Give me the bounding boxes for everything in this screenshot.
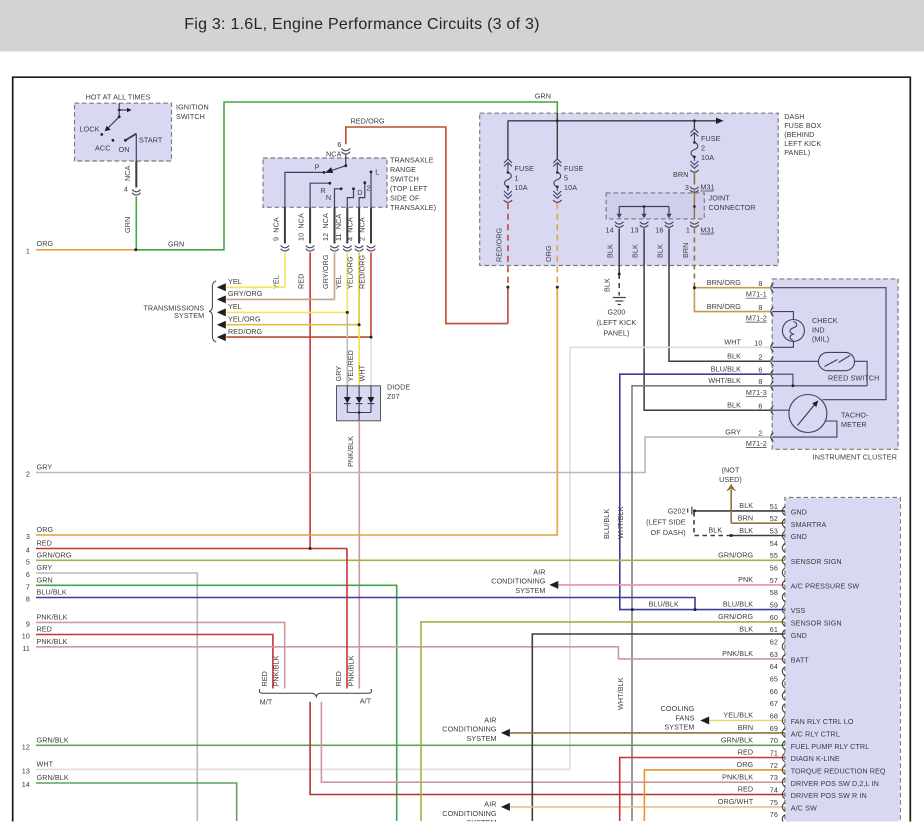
svg-text:AIR: AIR [484, 800, 496, 809]
wire RED/ORG dashed below fuse 1 [507, 203, 509, 287]
svg-text:GRN: GRN [37, 575, 53, 584]
svg-text:YEL/ORG: YEL/ORG [228, 315, 261, 324]
svg-text:WHT: WHT [358, 364, 367, 381]
diode Z07 box [337, 386, 381, 421]
junction RED-ORG/WHT [370, 336, 373, 339]
svg-text:8: 8 [758, 377, 762, 386]
arrow A/C system 1 [549, 581, 558, 589]
svg-text:PNK/BLK: PNK/BLK [346, 436, 355, 467]
svg-text:FUSE: FUSE [701, 134, 721, 143]
svg-text:BLK: BLK [656, 244, 665, 258]
junction cluster [792, 384, 795, 387]
bus drops to fuses [507, 121, 509, 159]
svg-text:(LEFT KICK: (LEFT KICK [597, 318, 637, 327]
svg-text:BRN: BRN [738, 723, 753, 732]
svg-text:M31: M31 [700, 226, 714, 235]
svg-text:ORG: ORG [37, 525, 54, 534]
svg-text:60: 60 [770, 613, 778, 622]
svg-text:D: D [357, 188, 362, 197]
svg-text:10 NCA: 10 NCA [297, 213, 306, 241]
ECM connector box [785, 498, 901, 834]
svg-text:SYSTEM: SYSTEM [466, 734, 496, 743]
connector pin 6 [342, 149, 351, 151]
svg-text:DRIVER POS SW R IN: DRIVER POS SW R IN [791, 791, 867, 800]
svg-text:TRANSAXLE): TRANSAXLE) [390, 203, 436, 212]
svg-text:10A: 10A [515, 183, 528, 192]
wire RED from pin [309, 253, 311, 549]
svg-text:GRN/ORG: GRN/ORG [718, 550, 753, 559]
svg-text:FUSE: FUSE [564, 164, 584, 173]
svg-text:11 NCA: 11 NCA [334, 214, 343, 241]
svg-text:6: 6 [758, 401, 762, 410]
junction YEL-ORG/YEL-RED [358, 323, 361, 326]
svg-text:BRN/ORG: BRN/ORG [707, 278, 742, 287]
ground G200 [613, 298, 626, 305]
svg-text:TACHO-: TACHO- [841, 411, 869, 420]
svg-text:BRN: BRN [681, 243, 690, 258]
fuse 5 symbol [553, 159, 562, 202]
svg-text:FUEL PUMP RLY CTRL: FUEL PUMP RLY CTRL [791, 742, 870, 751]
svg-text:CONDITIONING: CONDITIONING [442, 809, 497, 818]
svg-text:BRN: BRN [673, 170, 688, 179]
switch pin 9 wire NCA [284, 207, 286, 243]
svg-text:6: 6 [758, 365, 762, 374]
svg-text:9 NCA: 9 NCA [271, 217, 280, 241]
svg-text:PNK/BLK: PNK/BLK [37, 612, 68, 621]
transaxle switch internals [285, 154, 371, 208]
svg-text:64: 64 [770, 662, 778, 671]
wire GRN ignition to junction [135, 197, 137, 250]
connector pin 10 [306, 246, 315, 248]
svg-text:BRN/ORG: BRN/ORG [707, 302, 742, 311]
svg-text:GRY: GRY [37, 463, 53, 472]
svg-text:CHECK: CHECK [812, 316, 838, 325]
splice ORG [556, 286, 559, 289]
arrow A/C system 2 [501, 729, 510, 737]
svg-text:CONDITIONING: CONDITIONING [442, 725, 497, 734]
svg-text:GRN/BLK: GRN/BLK [37, 735, 69, 744]
instrument cluster box [772, 279, 898, 449]
svg-text:ORG: ORG [544, 245, 553, 262]
svg-text:(TOP LEFT: (TOP LEFT [390, 184, 428, 193]
svg-text:9: 9 [26, 619, 30, 628]
svg-text:54: 54 [770, 539, 778, 548]
svg-text:FAN RLY CTRL LO: FAN RLY CTRL LO [791, 717, 854, 726]
fuse 1 symbol [504, 159, 513, 202]
svg-text:WHT/BLK: WHT/BLK [616, 677, 625, 710]
svg-text:2: 2 [758, 428, 762, 437]
svg-text:51: 51 [770, 502, 778, 511]
svg-text:FANS: FANS [675, 713, 694, 722]
wire GRN inside fuse box to bus [556, 113, 558, 121]
svg-text:WHT: WHT [724, 338, 741, 347]
svg-text:JOINT: JOINT [709, 194, 731, 203]
wire ORG to pin 72 [644, 770, 785, 821]
svg-text:DIODE: DIODE [387, 383, 410, 392]
tachometer symbol [789, 395, 827, 433]
svg-text:3: 3 [685, 183, 689, 192]
arrow to transmissions system GRY/ORG [217, 295, 226, 303]
svg-text:RED: RED [260, 671, 269, 686]
wire BRN to pin 52 [731, 522, 785, 524]
svg-text:5: 5 [564, 174, 568, 183]
svg-text:GRY/ORG: GRY/ORG [321, 254, 330, 289]
wire BRN below fuse 2 [693, 171, 695, 184]
svg-text:NCA: NCA [123, 165, 132, 181]
svg-text:WHT: WHT [37, 759, 54, 768]
wire BRN through joint connector [693, 190, 695, 219]
junction GRN/ORG [134, 248, 137, 251]
svg-text:DIAGN K-LINE: DIAGN K-LINE [791, 754, 840, 763]
svg-text:BLK: BLK [739, 526, 753, 535]
svg-text:G202: G202 [668, 506, 686, 515]
svg-text:N: N [326, 193, 331, 202]
svg-text:3: 3 [26, 532, 30, 541]
splice RED/ORG [506, 286, 509, 289]
svg-text:4 NCA: 4 NCA [346, 217, 355, 241]
wire RED/ORG to pin 6 [346, 127, 508, 324]
wiper pivot [344, 164, 347, 167]
svg-text:RED: RED [37, 625, 52, 634]
svg-text:1: 1 [686, 226, 690, 235]
svg-text:55: 55 [770, 551, 778, 560]
svg-text:NCA: NCA [326, 150, 342, 159]
svg-text:ORG: ORG [37, 239, 54, 248]
contact R [328, 182, 331, 185]
svg-text:(LEFT SIDE: (LEFT SIDE [646, 518, 686, 527]
splice BLK [730, 534, 733, 537]
svg-text:M/T: M/T [260, 697, 273, 706]
svg-text:SWITCH: SWITCH [176, 112, 205, 121]
svg-text:GRY: GRY [37, 563, 53, 572]
wire RED/ORG from pin [370, 253, 372, 338]
svg-text:10A: 10A [564, 183, 577, 192]
svg-text:REED SWITCH: REED SWITCH [828, 374, 879, 383]
svg-text:GND: GND [791, 631, 807, 640]
svg-text:RANGE: RANGE [390, 165, 416, 174]
wire GRY/ORG from pin [334, 253, 336, 300]
wire PNK/BLK diode output to A/T [358, 421, 360, 689]
svg-text:RED: RED [297, 274, 306, 289]
svg-text:A/C RLY CTRL: A/C RLY CTRL [791, 729, 840, 738]
wire YEL/RED to diode [358, 325, 360, 386]
svg-text:BLK: BLK [631, 244, 640, 258]
svg-text:FUSE: FUSE [515, 164, 535, 173]
wire ORG dashed below fuse 5 [556, 203, 558, 287]
svg-text:A/T: A/T [360, 697, 372, 706]
bus arrow [716, 118, 724, 124]
svg-text:CONDITIONING: CONDITIONING [491, 577, 546, 586]
connector pin 12 [330, 246, 339, 248]
svg-text:FUSE BOX: FUSE BOX [784, 121, 821, 130]
reed switch symbol [819, 352, 855, 370]
svg-text:74: 74 [770, 786, 778, 795]
svg-text:7: 7 [26, 582, 30, 591]
svg-text:SENSOR SIGN: SENSOR SIGN [791, 557, 842, 566]
svg-text:SYSTEM: SYSTEM [664, 723, 694, 732]
svg-text:67: 67 [770, 699, 778, 708]
svg-text:PNK/BLK: PNK/BLK [722, 649, 753, 658]
svg-text:14: 14 [605, 226, 613, 235]
svg-text:Fig 3: 1.6L, Engine Performanc: Fig 3: 1.6L, Engine Performance Circuits… [184, 16, 540, 33]
svg-text:LOCK: LOCK [80, 125, 100, 134]
svg-text:YEL/ORG: YEL/ORG [346, 256, 355, 289]
joint connector drop [618, 207, 620, 215]
svg-text:A/C SW: A/C SW [791, 803, 817, 812]
wire RED below brace to pin 74 [310, 702, 785, 795]
svg-text:IGNITION: IGNITION [176, 103, 209, 112]
svg-text:TORQUE REDUCTION REQ: TORQUE REDUCTION REQ [791, 766, 886, 775]
svg-text:BLU/BLK: BLU/BLK [602, 509, 611, 539]
svg-text:BLU/BLK: BLU/BLK [723, 600, 753, 609]
svg-text:GRN: GRN [535, 92, 551, 101]
svg-text:63: 63 [770, 650, 778, 659]
switch pin 2 wire NCA [370, 207, 372, 243]
svg-text:OF DASH): OF DASH) [651, 528, 686, 537]
svg-text:BLK: BLK [727, 352, 741, 361]
svg-text:52: 52 [770, 514, 778, 523]
joint connector drop [643, 207, 645, 215]
svg-text:BLK: BLK [603, 278, 612, 292]
svg-text:L: L [375, 168, 379, 177]
svg-text:GRY/ORG: GRY/ORG [228, 289, 263, 298]
connector pin 11 [343, 246, 352, 248]
svg-text:AIR: AIR [484, 715, 496, 724]
fuse 2 symbol [690, 129, 699, 172]
connector M31 pin 1 [690, 222, 699, 224]
svg-text:TRANSAXLE: TRANSAXLE [390, 156, 434, 165]
svg-text:GRN: GRN [168, 240, 184, 249]
svg-text:M71-1: M71-1 [746, 290, 767, 299]
arrow cooling fans [700, 717, 709, 725]
svg-text:LEFT KICK: LEFT KICK [784, 139, 821, 148]
svg-text:RED/ORG: RED/ORG [228, 327, 263, 336]
svg-text:COOLING: COOLING [661, 704, 695, 713]
ignition switch box [75, 103, 172, 161]
svg-text:10A: 10A [701, 153, 714, 162]
svg-text:YEL: YEL [228, 277, 242, 286]
svg-text:56: 56 [770, 564, 778, 573]
svg-text:2: 2 [701, 144, 705, 153]
joint connector internal bus [619, 206, 669, 208]
junction YEL/GRY [346, 311, 349, 314]
svg-text:RED: RED [738, 748, 753, 757]
svg-text:GND: GND [791, 532, 807, 541]
svg-text:YEL: YEL [334, 275, 343, 289]
contact L [370, 171, 373, 174]
svg-text:RED: RED [334, 671, 343, 686]
svg-text:PANEL): PANEL) [784, 148, 810, 157]
brace transmissions [209, 281, 216, 342]
ignition ON contact [124, 139, 127, 142]
svg-text:2: 2 [26, 470, 30, 479]
svg-text:8: 8 [758, 303, 762, 312]
svg-text:WHT/BLK: WHT/BLK [708, 376, 741, 385]
wire YEL/ORG from pin [358, 253, 360, 325]
wire RED to pin 71 [620, 758, 785, 822]
svg-text:65: 65 [770, 675, 778, 684]
wire BLK 16 to cluster BLK 2 [669, 229, 770, 362]
svg-text:ACC: ACC [95, 144, 110, 153]
svg-text:PNK/BLK: PNK/BLK [346, 655, 355, 686]
svg-text:M71-2: M71-2 [746, 439, 767, 448]
switch pin 4 wire NCA [358, 207, 360, 243]
arrow to transmissions system YEL/ORG [217, 321, 226, 329]
transaxle range switch box [263, 158, 387, 207]
svg-text:GRN/BLK: GRN/BLK [37, 773, 69, 782]
ignition output wire NCA [135, 161, 137, 188]
svg-text:57: 57 [770, 576, 778, 585]
svg-text:AIR: AIR [533, 568, 545, 577]
svg-text:16: 16 [655, 226, 663, 235]
svg-text:(NOT: (NOT [722, 466, 740, 475]
arrow A/C system 3 [501, 803, 510, 811]
brace M/T A/T [259, 689, 371, 697]
svg-text:GRN/ORG: GRN/ORG [718, 612, 753, 621]
connector pin 14 [615, 222, 624, 224]
svg-text:YEL/RED: YEL/RED [346, 350, 355, 381]
svg-text:4: 4 [124, 185, 128, 194]
svg-text:BLK: BLK [606, 244, 615, 258]
connector pin 2 [367, 246, 376, 248]
svg-text:RED: RED [738, 785, 753, 794]
svg-text:2: 2 [366, 184, 370, 193]
connector pin 4 [132, 190, 141, 192]
joint connector box [606, 193, 704, 219]
svg-text:70: 70 [770, 736, 778, 745]
wire YEL from pin [346, 253, 348, 313]
svg-text:GRY: GRY [725, 427, 741, 436]
svg-text:(BEHIND: (BEHIND [784, 130, 814, 139]
svg-text:CONNECTOR: CONNECTOR [709, 203, 756, 212]
svg-text:6: 6 [337, 140, 341, 149]
diode elements [346, 386, 348, 397]
svg-text:PNK/BLK: PNK/BLK [272, 655, 281, 686]
svg-text:PANEL): PANEL) [603, 329, 629, 338]
contact 2 [363, 181, 366, 184]
svg-text:58: 58 [770, 588, 778, 597]
svg-text:PNK/BLK: PNK/BLK [722, 772, 753, 781]
ignition LOCK contact [100, 133, 103, 136]
svg-text:12: 12 [22, 742, 30, 751]
svg-text:GRN/ORG: GRN/ORG [37, 550, 72, 559]
fuse box bus [508, 120, 722, 122]
svg-text:4: 4 [26, 546, 30, 555]
svg-text:75: 75 [770, 798, 778, 807]
junction dots layer [118, 109, 121, 112]
svg-text:M31: M31 [700, 183, 714, 192]
wire BRN pin 52 to not used [730, 490, 732, 523]
svg-text:5: 5 [26, 557, 30, 566]
wire ORG solid to wire 3 [36, 287, 557, 535]
svg-text:68: 68 [770, 712, 778, 721]
diode internal bus [347, 413, 371, 421]
svg-text:62: 62 [770, 638, 778, 647]
wire PNK/BLK below brace to pin 73 [321, 702, 785, 782]
svg-text:RED/ORG: RED/ORG [495, 227, 504, 262]
svg-text:72: 72 [770, 761, 778, 770]
svg-text:BLK: BLK [708, 526, 722, 535]
connector M31 pin 3 [690, 187, 699, 189]
svg-text:START: START [139, 136, 163, 145]
svg-text:10: 10 [22, 632, 30, 641]
svg-text:(MIL): (MIL) [812, 335, 829, 344]
svg-text:13: 13 [630, 226, 638, 235]
svg-text:M71-2: M71-2 [746, 314, 767, 323]
svg-text:YEL: YEL [228, 302, 242, 311]
contact P [323, 171, 326, 174]
svg-text:RED/ORG: RED/ORG [351, 117, 386, 126]
svg-text:RED/ORG: RED/ORG [358, 254, 367, 289]
bottom page cut [0, 822, 924, 834]
svg-text:59: 59 [770, 601, 778, 610]
svg-text:VSS: VSS [791, 606, 806, 615]
wire YEL/BLK to pin 68 [709, 720, 785, 722]
svg-text:YEL/BLK: YEL/BLK [723, 711, 753, 720]
wire ORG/WHT to pin 75 [510, 806, 785, 808]
wire GRY cluster to wire 2 [36, 437, 770, 472]
splice BRN [693, 286, 696, 289]
wire BRN/ORG to M71-1 [694, 287, 770, 289]
svg-text:ORG/WHT: ORG/WHT [718, 797, 754, 806]
svg-text:INSTRUMENT CLUSTER: INSTRUMENT CLUSTER [813, 453, 897, 462]
wire GRN/ORG from bottom to pin 60 [421, 622, 785, 821]
svg-text:2 NCA: 2 NCA [358, 217, 367, 241]
junction BLU/BLK right [694, 608, 697, 611]
svg-text:ON: ON [119, 145, 130, 154]
wire RED/ORG solid down-left [507, 287, 509, 324]
svg-text:11: 11 [22, 644, 30, 653]
svg-text:BLU/BLK: BLU/BLK [711, 364, 741, 373]
svg-text:ORG: ORG [737, 760, 754, 769]
svg-text:2: 2 [758, 353, 762, 362]
svg-text:BATT: BATT [791, 656, 810, 665]
svg-text:WHT/BLK: WHT/BLK [616, 506, 625, 539]
svg-text:GND: GND [791, 508, 807, 517]
wire BRN to pin 69 [510, 732, 785, 734]
svg-text:8: 8 [758, 279, 762, 288]
joint connector drop [668, 207, 670, 215]
svg-text:12 NCA: 12 NCA [321, 213, 330, 241]
svg-text:HOT AT ALL TIMES: HOT AT ALL TIMES [86, 93, 151, 102]
svg-text:Z07: Z07 [387, 392, 400, 401]
wire BRN dashed to splice [693, 229, 695, 288]
connector pin 9 [281, 246, 290, 248]
svg-text:GRN: GRN [123, 217, 132, 233]
svg-text:76: 76 [770, 810, 778, 819]
svg-text:61: 61 [770, 625, 778, 634]
wire BLU/BLK cluster down [620, 374, 770, 609]
connector pin 4 [355, 246, 364, 248]
dash fuse box [480, 113, 779, 265]
switch pin 12 wire NCA [334, 207, 336, 243]
arrow to transmissions system RED/ORG [217, 333, 226, 341]
svg-text:BLU/BLK: BLU/BLK [37, 588, 67, 597]
wire PNK to pin 57 [559, 584, 786, 586]
svg-text:G200: G200 [608, 307, 626, 316]
svg-text:14: 14 [22, 780, 30, 789]
contact D [352, 187, 355, 190]
svg-text:SWITCH: SWITCH [390, 175, 419, 184]
svg-text:13: 13 [22, 766, 30, 775]
svg-text:BLK: BLK [739, 624, 753, 633]
svg-text:6: 6 [26, 570, 30, 579]
wire BLK G202 to pin 51 [695, 510, 786, 512]
cluster internal wiring [772, 288, 886, 437]
svg-text:69: 69 [770, 724, 778, 733]
wire BLK pin 61 [532, 634, 785, 821]
svg-text:66: 66 [770, 687, 778, 696]
